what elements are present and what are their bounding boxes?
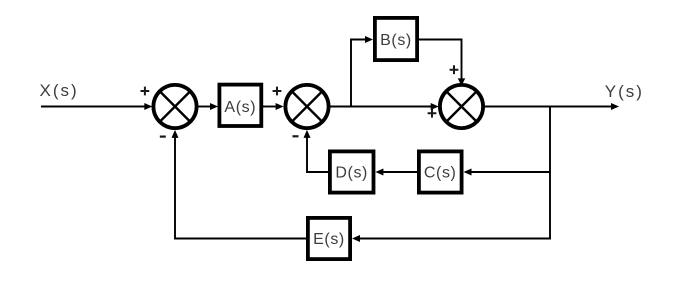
wire block A to summing junction S2 [263,106,277,108]
summing junction S1 [153,85,196,128]
wire block B to S3 top [419,40,462,81]
block C(s) [419,151,462,192]
wire feedback tap to block C [469,171,550,173]
block E(s) [308,218,350,259]
wire branch up to block B [351,40,367,107]
sign + at S3 left input [428,109,437,118]
sign - at S2 bottom input [293,135,299,137]
wire S3 to output Y(s) [483,106,613,108]
svg-text:C(s): C(s) [424,165,457,182]
block D(s) [330,151,374,192]
svg-text:B(s): B(s) [380,32,412,49]
arrowhead into block E [352,235,360,242]
summing junction S2 [285,85,328,128]
svg-text:D(s): D(s) [335,165,368,182]
svg-text:Y(s): Y(s) [605,82,644,101]
block A(s) [219,85,261,126]
sign + at S3 top input [450,65,459,74]
summing junction S3 [440,85,483,128]
wire block C to block D [381,171,417,173]
wire block D to S2 bottom [307,136,328,172]
wire S2 to summing junction S3 [329,106,434,108]
sign + at S1 left input [141,87,150,96]
svg-text:A(s): A(s) [224,99,256,116]
wire feedback branch down from output node [358,107,550,239]
svg-text:E(s): E(s) [313,231,345,248]
wire S1 to block A [197,106,213,108]
block B(s) [375,18,417,60]
sign + at S2 left input [273,87,282,96]
wire block E to S1 bottom [175,136,306,239]
svg-text:X(s): X(s) [40,81,79,100]
wire input X(s) to summing junction S1 [41,106,146,108]
sign - at S1 bottom input [160,136,166,138]
